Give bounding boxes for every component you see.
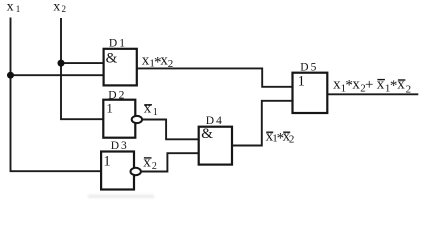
svg-text:2: 2 — [289, 133, 295, 145]
inversion bubble of D2 — [132, 116, 142, 123]
svg-text:x: x — [7, 0, 14, 15]
wire x1 vertical feed to D3 input — [11, 18, 102, 172]
AND gate D4 — [199, 127, 232, 165]
AND gate D1 — [104, 49, 137, 86]
label output x1*x2 + xbar1*xbar2 — [333, 77, 411, 96]
OR gate D5 — [293, 73, 328, 113]
svg-text:2: 2 — [406, 83, 412, 95]
wire D1 output to D5 input 1 — [137, 68, 293, 86]
junction dot on x1 — [7, 72, 14, 79]
wire D3 output to D4 input 2 — [141, 153, 199, 171]
svg-text:2: 2 — [62, 4, 67, 14]
label x1*x2 — [142, 53, 173, 71]
wire D5 output — [327, 93, 418, 95]
wire D2 output to D4 input 1 — [142, 120, 199, 140]
svg-text:+: + — [365, 77, 373, 93]
svg-text:x: x — [352, 77, 360, 93]
NOT gate D3 — [101, 152, 134, 190]
label xbar1*xbar2 — [266, 128, 295, 146]
svg-text:D3: D3 — [111, 140, 129, 152]
svg-text:x: x — [53, 0, 60, 15]
svg-text:x: x — [144, 100, 152, 116]
junction dot on x2 — [58, 60, 65, 67]
svg-text:D5: D5 — [300, 62, 318, 74]
svg-text:D1: D1 — [109, 38, 127, 50]
wire D1 input 2 from x1 — [11, 74, 104, 76]
scan smudge artifact — [88, 195, 154, 198]
wire D1 input 1 from x2 — [61, 62, 104, 64]
label xbar1 — [144, 100, 158, 118]
svg-text:2: 2 — [152, 161, 157, 172]
svg-text:1: 1 — [106, 101, 113, 116]
wire D4 output to D5 input 2 — [232, 101, 293, 146]
svg-text:2: 2 — [168, 58, 174, 70]
wire x2 vertical feed to D2 input — [61, 18, 103, 119]
svg-text:1: 1 — [103, 153, 110, 169]
node x1 input label — [7, 0, 21, 15]
node x2 input label — [53, 0, 66, 15]
label xbar2 — [143, 155, 157, 172]
svg-text:x: x — [397, 77, 405, 93]
svg-text:1: 1 — [16, 4, 20, 14]
svg-text:1: 1 — [153, 107, 158, 118]
svg-text:x: x — [143, 155, 151, 171]
svg-text:&: & — [201, 126, 213, 142]
svg-text:1: 1 — [298, 74, 305, 90]
NOT gate D2 — [103, 100, 135, 138]
inversion bubble of D3 — [131, 168, 141, 175]
svg-text:&: & — [106, 50, 118, 66]
